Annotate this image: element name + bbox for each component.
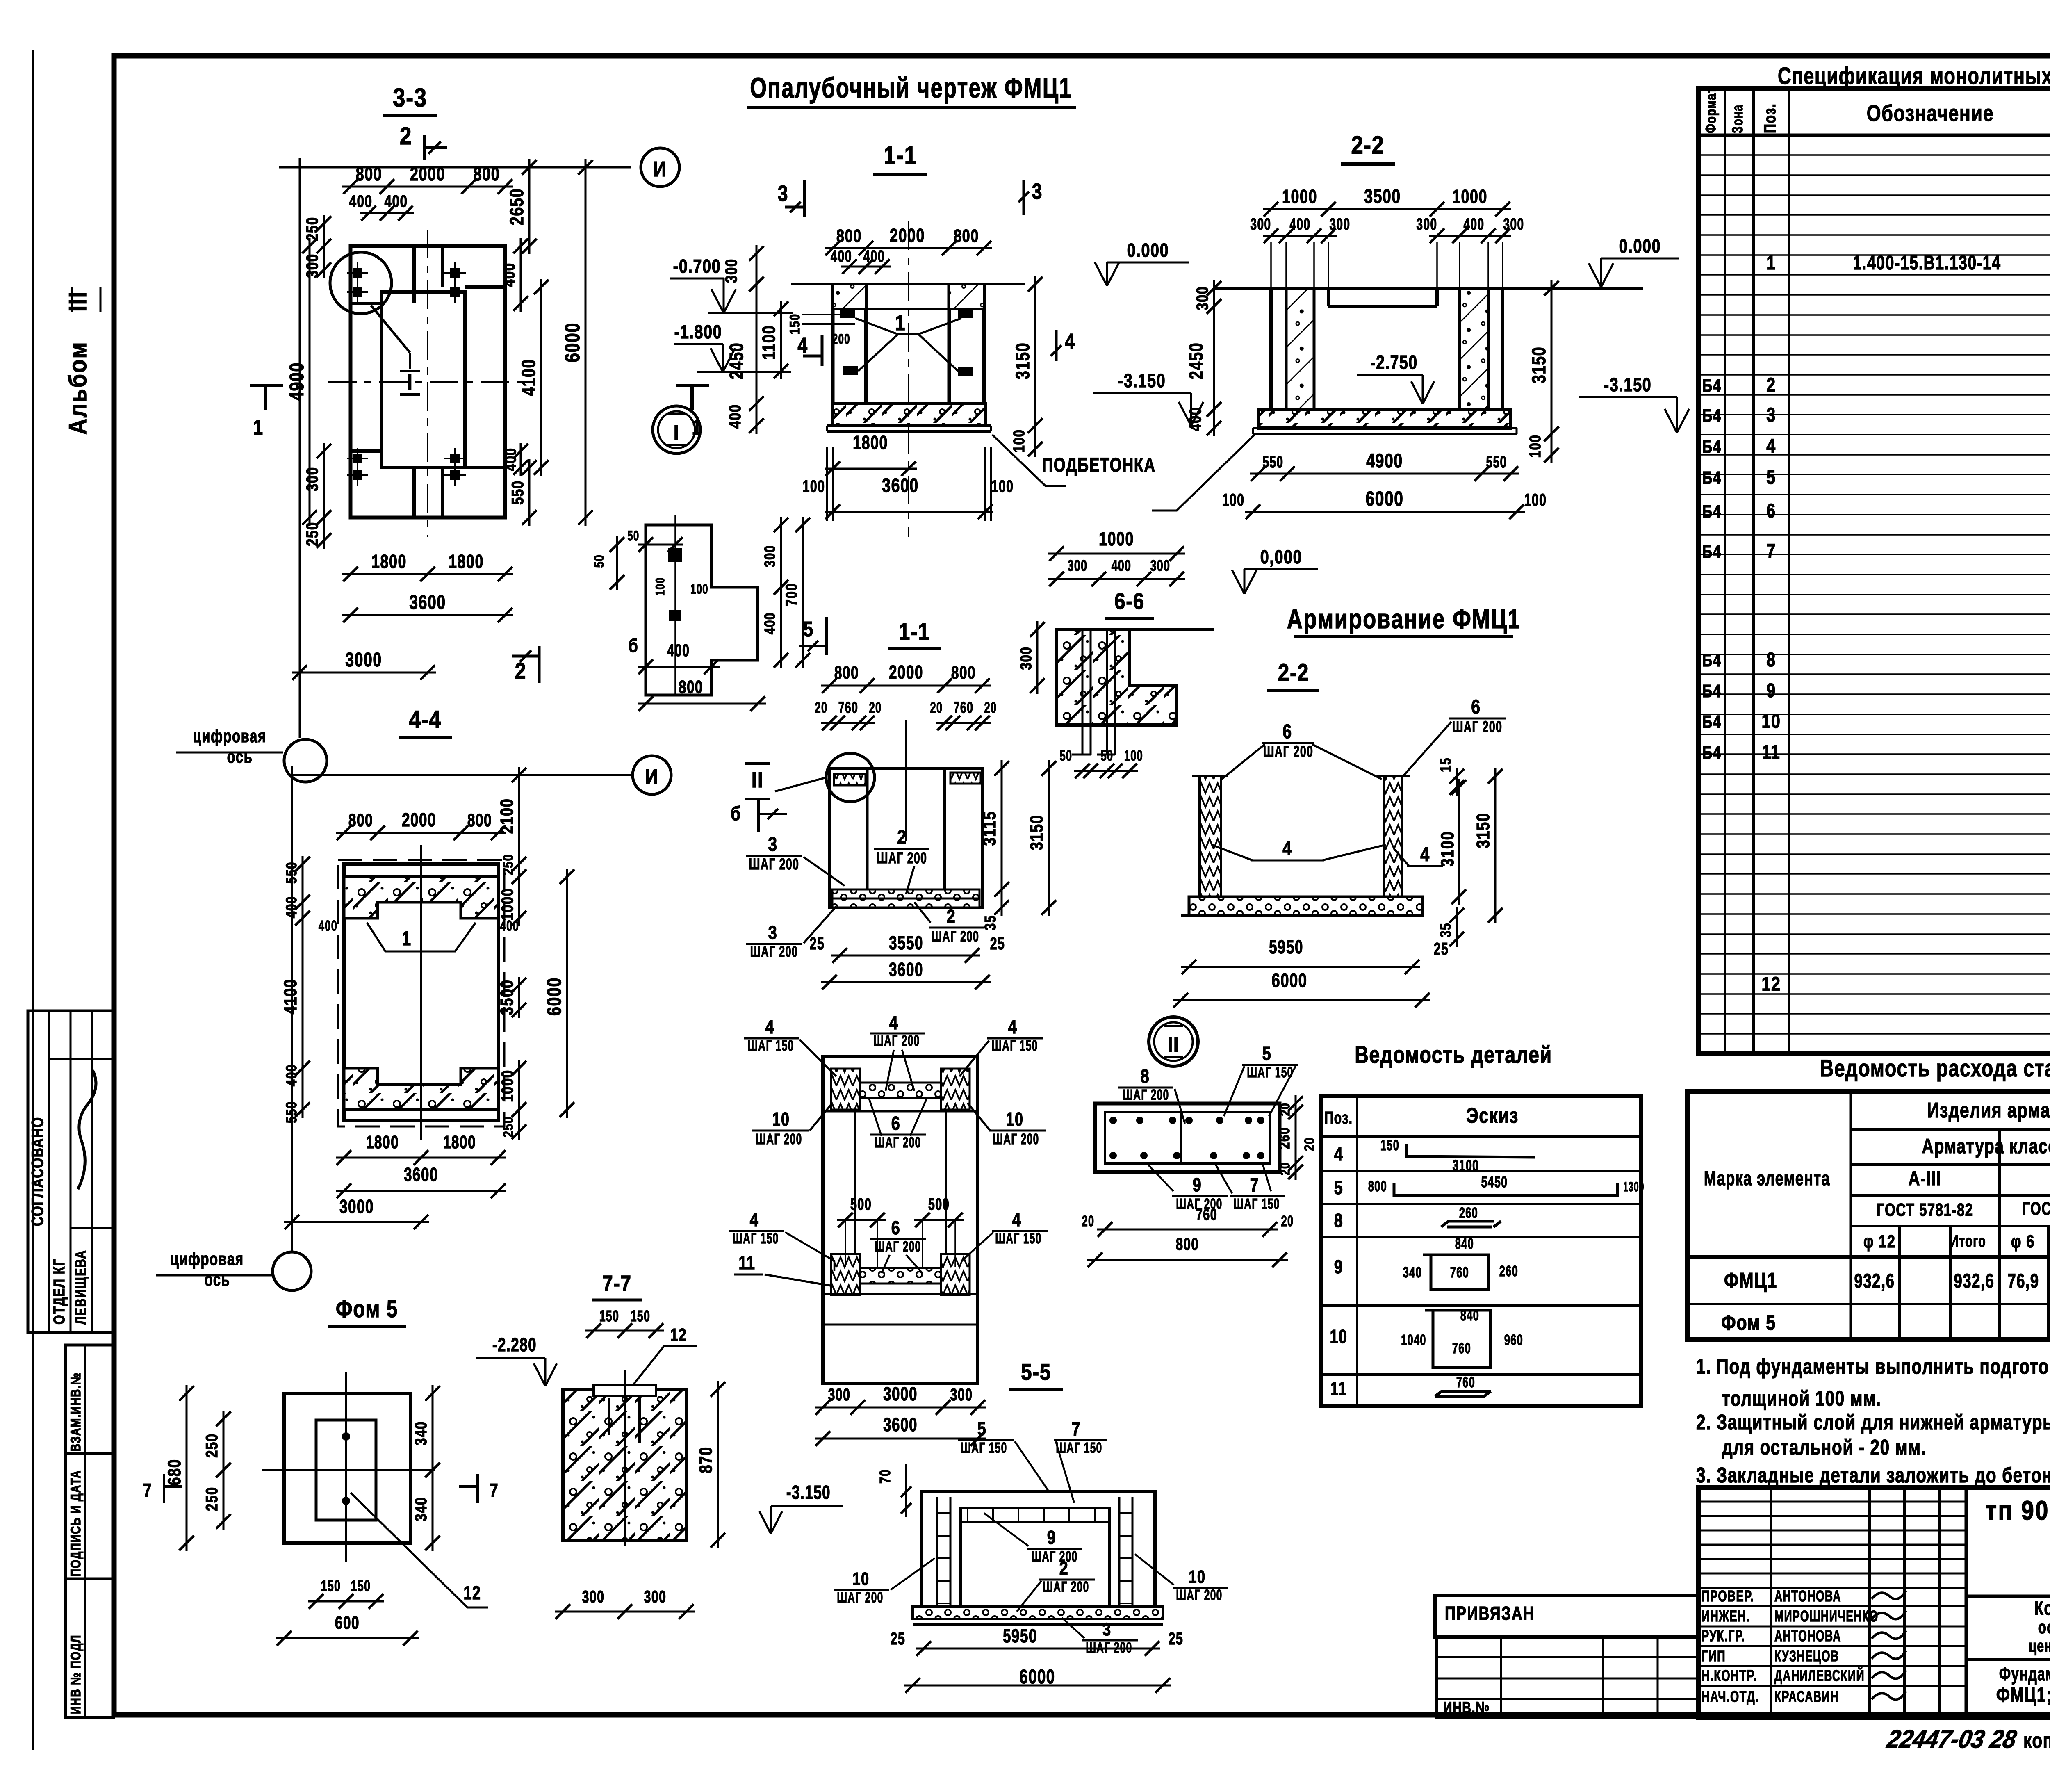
- svg-text:800: 800: [467, 811, 492, 830]
- svg-text:2450: 2450: [726, 342, 747, 379]
- svg-text:ЛЕВИЩЕВА: ЛЕВИЩЕВА: [72, 1250, 89, 1325]
- цифровая ось circle lower: [273, 1252, 311, 1290]
- svg-text:ШАГ 200: ШАГ 200: [1176, 1587, 1222, 1603]
- svg-text:6000: 6000: [543, 977, 565, 1016]
- svg-text:300: 300: [1330, 215, 1351, 233]
- svg-text:1000: 1000: [1452, 186, 1487, 207]
- svg-text:3: 3: [768, 833, 778, 855]
- Фом5 plan centerlines and bolts: [345, 1372, 347, 1562]
- svg-text:цифровая: цифровая: [193, 727, 266, 747]
- svg-text:870: 870: [696, 1446, 716, 1473]
- svg-text:760: 760: [1456, 1374, 1475, 1391]
- detail II circle label: [1149, 1017, 1198, 1066]
- svg-text:3150: 3150: [1012, 342, 1033, 379]
- svg-text:4: 4: [1420, 844, 1430, 866]
- 7-7 dims 300 300 below: [555, 1611, 695, 1613]
- svg-text:АНТОНОВА: АНТОНОВА: [1774, 1627, 1841, 1644]
- svg-text:ШАГ 200: ШАГ 200: [1043, 1578, 1089, 1595]
- svg-text:3. Закладные детали залож: 3. Закладные детали заложить до бетониро…: [1696, 1463, 2050, 1487]
- svg-text:4: 4: [1766, 435, 1776, 457]
- svg-text:-2.750: -2.750: [1370, 352, 1417, 374]
- svg-text:11: 11: [1762, 741, 1781, 763]
- svg-text:800: 800: [1368, 1178, 1387, 1195]
- axis line horizontal to И circle: [279, 166, 631, 169]
- view 1-1 walls and slab outline: [791, 283, 1025, 285]
- цифровая ось circle upper: [284, 739, 327, 782]
- svg-text:800: 800: [954, 226, 979, 246]
- svg-text:400: 400: [831, 247, 852, 265]
- svg-text:260: 260: [1499, 1263, 1518, 1280]
- svg-text:1800: 1800: [853, 432, 888, 453]
- svg-text:центрифугами ОГШ-1001К-01: центрифугами ОГШ-1001К-01: [2029, 1636, 2050, 1655]
- svg-text:2: 2: [1059, 1557, 1069, 1578]
- svg-text:100: 100: [1524, 490, 1547, 509]
- svg-text:400: 400: [667, 641, 690, 660]
- svg-text:960: 960: [1504, 1332, 1523, 1349]
- embedded part plan detail (stepped): [646, 525, 758, 695]
- Фом5 dims 340 340 (right): [432, 1385, 434, 1478]
- svg-text:7: 7: [1766, 540, 1776, 562]
- svg-text:КРАСАВИН: КРАСАВИН: [1774, 1687, 1839, 1705]
- svg-text:2450: 2450: [1185, 342, 1206, 379]
- stamp box 'Инв. № подл.': [66, 1579, 114, 1717]
- svg-text:300: 300: [303, 467, 321, 491]
- svg-text:-2.280: -2.280: [492, 1334, 537, 1355]
- svg-text:760: 760: [838, 698, 859, 716]
- svg-text:5: 5: [1334, 1177, 1344, 1198]
- svg-text:400: 400: [863, 247, 885, 265]
- svg-text:6: 6: [891, 1217, 901, 1238]
- svg-text:б: б: [629, 635, 639, 656]
- axis circle И (left of 1-1): [641, 148, 679, 187]
- right dims 400 top / 4100 / 400 550 bottom / 6000: [520, 238, 522, 312]
- svg-text:3600: 3600: [882, 475, 919, 497]
- svg-text:Обозначение: Обозначение: [1867, 100, 1994, 126]
- svg-text:И: И: [653, 157, 667, 181]
- svg-text:100: 100: [1527, 435, 1544, 458]
- svg-text:800: 800: [951, 663, 976, 683]
- svg-text:1-1: 1-1: [899, 618, 930, 645]
- svg-text:260: 260: [1459, 1205, 1478, 1222]
- svg-text:760: 760: [1196, 1205, 1217, 1224]
- level 0.000 right of 2-2: [1589, 263, 1601, 287]
- svg-text:5: 5: [803, 618, 813, 641]
- svg-text:300: 300: [761, 545, 778, 567]
- svg-text:2: 2: [947, 905, 956, 926]
- svg-text:15: 15: [1437, 757, 1453, 772]
- svg-text:3150: 3150: [1528, 347, 1549, 383]
- title block outer box: [1699, 1487, 2050, 1717]
- svg-text:ШАГ 150: ШАГ 150: [1233, 1195, 1280, 1212]
- embedded plates in 1-1: [840, 309, 855, 318]
- svg-text:6000: 6000: [1019, 1666, 1055, 1688]
- svg-text:3500: 3500: [497, 980, 517, 1015]
- svg-text:20: 20: [930, 700, 943, 716]
- svg-text:25: 25: [810, 934, 825, 953]
- view 2-2 outline: [1215, 287, 1643, 290]
- svg-text:4: 4: [1012, 1209, 1022, 1230]
- svg-text:ПОДПИСЬ И ДАТА: ПОДПИСЬ И ДАТА: [68, 1470, 84, 1577]
- svg-text:1000: 1000: [498, 888, 517, 921]
- svg-text:6000: 6000: [561, 322, 584, 363]
- plan outline 3-3: [351, 246, 505, 518]
- svg-text:4: 4: [1282, 837, 1292, 860]
- svg-text:6000: 6000: [1271, 969, 1307, 992]
- svg-text:6-6: 6-6: [1114, 588, 1145, 614]
- svg-text:Фундаменты под оборудование: Фундаменты под оборудование: [1999, 1664, 2050, 1685]
- svg-text:1: 1: [1766, 252, 1776, 274]
- svg-text:5: 5: [1262, 1043, 1272, 1064]
- svg-text:МИРОШНИЧЕНКО: МИРОШНИЧЕНКО: [1774, 1607, 1879, 1625]
- svg-text:ШАГ 150: ШАГ 150: [1247, 1064, 1293, 1081]
- 2-2a walls: [1200, 776, 1221, 909]
- svg-text:ШАГ 150: ШАГ 150: [1056, 1439, 1102, 1456]
- svg-text:ОТДЕЛ КГ: ОТДЕЛ КГ: [51, 1258, 68, 1325]
- svg-text:20: 20: [1082, 1213, 1095, 1230]
- svg-text:ось: ось: [227, 747, 253, 767]
- title block left columns grid: [1770, 1487, 1772, 1717]
- svg-text:35: 35: [1437, 923, 1453, 937]
- svg-text:Б4: Б4: [1702, 542, 1722, 562]
- svg-text:932,6: 932,6: [1954, 1270, 1995, 1292]
- detail circle II on 1-1a: [826, 753, 875, 802]
- svg-text:400: 400: [1186, 407, 1205, 431]
- svg-text:ПРИВЯЗАН: ПРИВЯЗАН: [1445, 1603, 1535, 1624]
- svg-text:25: 25: [1434, 939, 1449, 958]
- svg-text:300: 300: [644, 1587, 667, 1606]
- leader lines pos 1 in view 1-1: [855, 318, 961, 334]
- svg-text:7: 7: [1250, 1174, 1260, 1195]
- 4-4a dims 300 3000 300 / 3600 below: [815, 1407, 986, 1409]
- svg-text:ШАГ 150: ШАГ 150: [732, 1230, 779, 1247]
- svg-text:б: б: [731, 803, 741, 825]
- svg-text:для остальной - 20 мм.: для остальной - 20 мм.: [1722, 1435, 1927, 1459]
- svg-text:3550: 3550: [889, 932, 923, 953]
- svg-text:20: 20: [869, 700, 882, 716]
- svg-text:ИНВ № ПОДЛ: ИНВ № ПОДЛ: [68, 1635, 84, 1714]
- svg-text:ШАГ 200: ШАГ 200: [993, 1131, 1039, 1147]
- dim 2650 right top (rotated): [528, 159, 531, 254]
- svg-text:3: 3: [768, 922, 778, 943]
- svg-text:400: 400: [1112, 556, 1132, 574]
- svg-text:2: 2: [1766, 374, 1776, 396]
- svg-text:Б4: Б4: [1702, 681, 1722, 701]
- svg-text:300: 300: [1018, 647, 1035, 670]
- svg-text:10: 10: [1006, 1109, 1023, 1130]
- svg-text:12: 12: [1761, 973, 1781, 995]
- svg-text:Фом 5: Фом 5: [1721, 1311, 1776, 1335]
- svg-text:100: 100: [1222, 490, 1245, 509]
- svg-text:ШАГ 200: ШАГ 200: [1263, 742, 1314, 760]
- svg-text:Б4: Б4: [1702, 437, 1722, 457]
- dims 550 4900 550 below 2-2: [1250, 473, 1519, 475]
- подбетонка leader 2-2: [1152, 435, 1255, 511]
- title block document number 'ТП 902-5-47.87': [1966, 1595, 2050, 1598]
- svg-text:550: 550: [1486, 453, 1507, 471]
- svg-text:ФМЦ1: ФМЦ1: [1724, 1268, 1777, 1293]
- centerline 1-1a: [905, 720, 907, 841]
- svg-text:840: 840: [1455, 1236, 1474, 1252]
- svg-text:500: 500: [928, 1195, 950, 1213]
- svg-text:400: 400: [384, 192, 408, 211]
- svg-text:20: 20: [815, 700, 828, 716]
- 1-1a main box: [829, 768, 982, 907]
- svg-text:ФМЦ1; Фом5: ФМЦ1; Фом5: [1996, 1683, 2050, 1706]
- level -1.800 left: [711, 348, 723, 372]
- dims 1000 3500 1000 above 2-2: [1263, 208, 1511, 210]
- dim 35 right of 1-1a: [1001, 881, 1003, 916]
- svg-text:II: II: [752, 767, 764, 792]
- svg-text:25: 25: [891, 1629, 906, 1648]
- svg-text:4: 4: [1065, 330, 1075, 353]
- svg-text:7: 7: [1072, 1418, 1081, 1439]
- svg-text:100: 100: [1124, 748, 1143, 764]
- svg-text:-1.800: -1.800: [674, 321, 722, 342]
- view 5-5 box: [922, 1492, 1155, 1607]
- svg-text:ГОСТ 5781-82: ГОСТ 5781-82: [2022, 1199, 2050, 1219]
- svg-text:2650: 2650: [506, 188, 527, 225]
- svg-text:3600: 3600: [889, 959, 923, 980]
- svg-text:20: 20: [1278, 1162, 1293, 1175]
- svg-text:ШАГ 150: ШАГ 150: [747, 1037, 794, 1054]
- svg-text:250: 250: [303, 217, 321, 241]
- svg-text:760: 760: [1450, 1264, 1469, 1281]
- svg-text:4: 4: [765, 1016, 775, 1037]
- svg-text:ШАГ 200: ШАГ 200: [1031, 1548, 1077, 1565]
- detail dims 300 400 700 (right): [780, 517, 782, 595]
- svg-text:ДАНИЛЕВСКИЙ: ДАНИЛЕВСКИЙ: [1774, 1666, 1865, 1684]
- svg-text:400: 400: [500, 262, 518, 287]
- svg-text:Б4: Б4: [1702, 650, 1722, 670]
- svg-text:300: 300: [1150, 556, 1171, 574]
- svg-text:400: 400: [283, 1064, 299, 1086]
- dims right of 2-2a: 15 3100 3150 35: [1456, 768, 1458, 796]
- svg-text:ПРОВЕР.: ПРОВЕР.: [1701, 1588, 1754, 1605]
- svg-text:2-2: 2-2: [1351, 131, 1384, 160]
- svg-text:1-1: 1-1: [884, 141, 917, 170]
- svg-text:1000: 1000: [498, 1069, 517, 1102]
- svg-text:932,6: 932,6: [1854, 1270, 1895, 1292]
- svg-text:2-2: 2-2: [1278, 659, 1309, 686]
- level -0.700 left: [711, 289, 724, 313]
- svg-text:ВЗАМ.ИНВ.№: ВЗАМ.ИНВ.№: [68, 1372, 84, 1452]
- svg-text:ГИП: ГИП: [1701, 1648, 1726, 1665]
- svg-text:7: 7: [143, 1480, 153, 1500]
- svg-text:3000: 3000: [883, 1383, 918, 1404]
- svg-text:осадка сточных вод с 5: осадка сточных вод с 5: [2038, 1618, 2050, 1638]
- svg-text:1000: 1000: [1282, 186, 1317, 207]
- svg-text:АНТОНОВА: АНТОНОВА: [1774, 1587, 1841, 1605]
- ведомость деталей grid: [1321, 1096, 1641, 1406]
- centerlines plan 3-3: [427, 230, 428, 537]
- specification table grid: [1699, 89, 2050, 1053]
- dims 5950 / 6000 / 25 below 2-2a: [1181, 966, 1420, 968]
- Фом5 plan outline: [284, 1393, 410, 1543]
- svg-text:ШАГ 200: ШАГ 200: [875, 1238, 921, 1255]
- left rotated dims 4-4: 550 400 4100 400 550: [302, 856, 304, 910]
- dims 1000 / 300 400 300 above 6-6: [1048, 553, 1185, 555]
- svg-text:250: 250: [303, 522, 321, 546]
- svg-text:76,9: 76,9: [2007, 1270, 2039, 1292]
- svg-text:100: 100: [1011, 429, 1028, 453]
- svg-text:1: 1: [402, 928, 412, 950]
- vertical axis line (цифровая ось): [299, 158, 301, 738]
- svg-text:2: 2: [897, 826, 907, 848]
- svg-text:8: 8: [1766, 649, 1776, 671]
- centerline 1-1: [908, 221, 909, 537]
- svg-text:550: 550: [508, 480, 527, 505]
- svg-text:3000: 3000: [345, 649, 382, 671]
- 4-4 plan outline: [344, 864, 498, 1120]
- level -3.150 right of 2-2: [1665, 409, 1677, 433]
- svg-text:Поз.: Поз.: [1325, 1108, 1353, 1127]
- svg-text:760: 760: [1452, 1340, 1471, 1357]
- svg-text:1800: 1800: [443, 1133, 476, 1152]
- svg-text:2: 2: [400, 122, 412, 150]
- svg-text:ШАГ 200: ШАГ 200: [877, 849, 927, 866]
- svg-text:100: 100: [803, 476, 825, 496]
- svg-text:0.000: 0.000: [1619, 235, 1661, 256]
- svg-text:3100: 3100: [1437, 831, 1458, 867]
- svg-text:100: 100: [653, 577, 667, 596]
- svg-text:копировал: Хюппенен: копировал: Хюппенен: [2023, 1728, 2050, 1752]
- svg-text:Спецификация монолитных фунд: Спецификация монолитных фундаментов под …: [1778, 63, 2050, 90]
- 4-4 dashed podbetonka outline: [338, 860, 504, 1126]
- svg-text:600: 600: [335, 1613, 360, 1633]
- svg-text:φ 12: φ 12: [1863, 1231, 1895, 1252]
- svg-text:550: 550: [283, 862, 299, 884]
- svg-text:800: 800: [348, 811, 373, 830]
- svg-text:20: 20: [1278, 1103, 1293, 1116]
- svg-text:20: 20: [984, 700, 997, 716]
- svg-text:3: 3: [1032, 179, 1043, 204]
- Фом5 leader 12: [351, 1493, 467, 1607]
- dim 1800 below 1-1: [825, 468, 917, 470]
- svg-text:760: 760: [954, 698, 974, 716]
- svg-text:12: 12: [670, 1325, 687, 1345]
- svg-text:2100: 2100: [497, 798, 517, 834]
- svg-text:Б4: Б4: [1702, 406, 1722, 426]
- inv table below привязан: [1436, 1637, 1699, 1717]
- detail II beam section: [1095, 1103, 1280, 1172]
- svg-text:260: 260: [1276, 1127, 1292, 1149]
- svg-text:150: 150: [787, 313, 802, 334]
- svg-text:9: 9: [1766, 679, 1776, 702]
- right rotated dims 4-4: 2100 250 1000 3500 1000 250 6000: [518, 767, 520, 872]
- detail II rotated dims 20 260 20 right: [1295, 1095, 1297, 1180]
- svg-text:4: 4: [750, 1209, 759, 1230]
- svg-text:800: 800: [834, 663, 859, 683]
- left dims 300 250 bottom: [323, 443, 325, 526]
- svg-text:1800: 1800: [366, 1133, 399, 1152]
- svg-text:3: 3: [1766, 404, 1776, 426]
- svg-text:цифровая: цифровая: [170, 1249, 244, 1270]
- svg-text:1300: 1300: [1623, 1180, 1644, 1195]
- svg-text:150: 150: [631, 1307, 651, 1325]
- svg-text:0.000: 0.000: [1127, 239, 1169, 260]
- svg-text:400: 400: [761, 612, 778, 634]
- 7-7 top plate and anchors: [594, 1385, 656, 1396]
- svg-text:400: 400: [726, 404, 744, 429]
- dims 300 400 300 pairs above 2-2: [1263, 235, 1337, 237]
- title block 'Привязан' box: [1435, 1595, 1699, 1637]
- svg-text:25: 25: [1168, 1629, 1184, 1648]
- svg-text:11: 11: [1330, 1378, 1347, 1399]
- svg-text:II: II: [1168, 1034, 1180, 1057]
- svg-text:4: 4: [889, 1012, 899, 1033]
- svg-text:10: 10: [1330, 1326, 1347, 1347]
- svg-text:-0.700: -0.700: [673, 255, 721, 276]
- svg-text:7: 7: [490, 1480, 499, 1500]
- svg-text:ШАГ 150: ШАГ 150: [995, 1230, 1041, 1247]
- svg-text:11: 11: [738, 1252, 755, 1273]
- svg-text:Арматура класса: Арматура класса: [1922, 1134, 2050, 1158]
- svg-text:300: 300: [1068, 556, 1088, 574]
- svg-text:Фом 5: Фом 5: [336, 1296, 398, 1323]
- stamp table 'Согласовано' (rotated, left margin): [28, 1011, 114, 1332]
- svg-text:300: 300: [303, 253, 321, 278]
- svg-text:2. Защитный слой для ни: 2. Защитный слой для нижней арматуры фун…: [1696, 1410, 2050, 1434]
- svg-text:ось: ось: [205, 1270, 230, 1290]
- svg-text:φ 6: φ 6: [2011, 1231, 2035, 1252]
- svg-text:4-4: 4-4: [409, 706, 442, 733]
- svg-text:ШАГ 150: ШАГ 150: [991, 1037, 1038, 1054]
- svg-text:ШАГ 200: ШАГ 200: [756, 1131, 802, 1147]
- svg-text:7-7: 7-7: [602, 1271, 631, 1296]
- stamp box 'Подпись и дата': [66, 1454, 114, 1579]
- svg-text:1. Под фундаменты выполнить: 1. Под фундаменты выполнить подготовку и…: [1696, 1354, 2050, 1378]
- svg-text:4: 4: [1008, 1016, 1018, 1037]
- svg-text:ШАГ 200: ШАГ 200: [750, 944, 798, 960]
- svg-text:III: III: [64, 291, 91, 312]
- svg-text:250: 250: [500, 854, 516, 875]
- svg-text:Марка элемента: Марка элемента: [1704, 1167, 1830, 1189]
- svg-text:3600: 3600: [404, 1164, 438, 1185]
- svg-text:800: 800: [356, 164, 383, 185]
- 7-7 dim 870 right: [717, 1381, 719, 1548]
- svg-text:ИНВ.№: ИНВ.№: [1443, 1699, 1490, 1717]
- svg-text:250: 250: [500, 1116, 516, 1137]
- svg-text:толщиной 100 мм.: толщиной 100 мм.: [1722, 1386, 1881, 1410]
- svg-text:3600: 3600: [409, 592, 446, 614]
- svg-text:1.400-15.В1.130-14: 1.400-15.В1.130-14: [1853, 252, 2001, 274]
- svg-text:2000: 2000: [402, 809, 436, 830]
- svg-text:300: 300: [1193, 286, 1212, 310]
- Фом5 dims 150 150 / 600 below: [308, 1600, 384, 1603]
- svg-text:340: 340: [412, 1497, 430, 1521]
- dims 400 400 above 1-1: [841, 266, 891, 268]
- svg-text:5: 5: [977, 1418, 987, 1439]
- svg-text:Б4: Б4: [1702, 502, 1722, 522]
- dims above plan 3-3: 800 2000 800: [342, 186, 513, 188]
- svg-text:6: 6: [1282, 720, 1292, 743]
- level 0,000 right of 6-6: [1232, 570, 1244, 594]
- svg-text:Корпус обезвоживания: Корпус обезвоживания: [2034, 1597, 2050, 1619]
- svg-text:25: 25: [990, 934, 1005, 953]
- svg-text:10: 10: [772, 1109, 790, 1130]
- svg-text:20: 20: [1301, 1137, 1317, 1151]
- svg-text:4: 4: [1334, 1143, 1344, 1164]
- svg-text:150: 150: [599, 1307, 620, 1325]
- svg-text:ИНЖЕН.: ИНЖЕН.: [1701, 1608, 1750, 1625]
- svg-text:12: 12: [463, 1582, 481, 1603]
- svg-text:300: 300: [950, 1385, 973, 1404]
- svg-text:0,000: 0,000: [1260, 546, 1303, 567]
- svg-text:4100: 4100: [518, 359, 539, 396]
- svg-text:550: 550: [1263, 453, 1284, 471]
- svg-text:150: 150: [1380, 1137, 1399, 1154]
- left dim 4900: [309, 238, 311, 526]
